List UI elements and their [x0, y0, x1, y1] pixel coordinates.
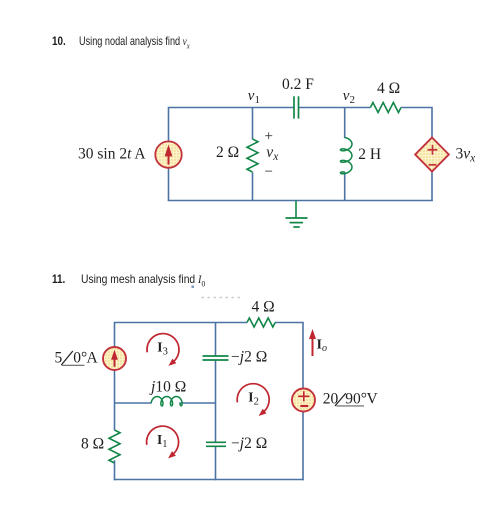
- svg-text:I2: I2: [248, 389, 259, 407]
- resistor 8 ohm: [109, 430, 120, 463]
- wire right below voltage source: [302, 411, 304, 480]
- mesh arrow I3: [147, 334, 179, 366]
- mesh arrow I1: [147, 426, 179, 458]
- svg-text:Io: Io: [317, 338, 327, 355]
- wire bottom rail: [168, 200, 433, 202]
- blue dot artifact: [192, 286, 195, 289]
- wire middle vertical below bottom cap: [215, 446, 217, 480]
- wire below 2 ohm resistor: [252, 172, 254, 201]
- svg-text:8 Ω: 8 Ω: [81, 436, 104, 453]
- svg-text:I3: I3: [157, 339, 168, 357]
- resistor 2 ohm: [247, 139, 258, 172]
- svg-text:v1: v1: [248, 88, 260, 106]
- wire middle rail right of inductor: [179, 402, 215, 404]
- label 20 angle 90 V: [323, 391, 379, 408]
- mesh arrow I2: [237, 384, 269, 416]
- capacitor -j2 ohm (top): [203, 356, 229, 360]
- wire top rail middle segment: [298, 107, 370, 109]
- capacitor -j2 ohm (bottom): [206, 442, 226, 446]
- wire left below source: [168, 167, 170, 201]
- wire left below current source: [114, 370, 116, 431]
- current source 30 sin 2t A: [155, 141, 181, 167]
- wire top right corner: [275, 323, 303, 389]
- dependent source 3vx (diamond): [415, 138, 449, 172]
- wire middle vertical above top cap: [215, 323, 217, 357]
- wire middle vertical between caps: [215, 360, 217, 442]
- wire node v1 vertical: [252, 108, 254, 140]
- resistor 4 ohm (circuit 10): [370, 103, 401, 113]
- svg-text:90°V: 90°V: [345, 391, 378, 408]
- wire top rail right segment: [401, 108, 432, 138]
- svg-text:4 Ω: 4 Ω: [252, 298, 275, 315]
- svg-text:I1: I1: [157, 432, 168, 450]
- wire node v2 vertical: [344, 108, 346, 139]
- resistor 4 ohm (circuit 11): [247, 318, 275, 327]
- current source 5/0 A: [103, 347, 126, 370]
- svg-text:−j2 Ω: −j2 Ω: [231, 435, 267, 452]
- inductor 2 H: [340, 138, 352, 174]
- label 5 angle 0 A: [55, 350, 99, 367]
- voltage source 20/90 V: [292, 389, 315, 412]
- wire left below 8 ohm: [114, 460, 116, 480]
- svg-text:2 H: 2 H: [358, 146, 381, 163]
- svg-text:+: +: [265, 129, 273, 145]
- svg-text:0°A: 0°A: [73, 350, 98, 367]
- svg-text:−: −: [265, 164, 273, 180]
- wire bottom rail (circuit 11): [114, 479, 304, 481]
- wire middle rail left of inductor: [115, 402, 152, 404]
- dotted artifact line: [202, 297, 244, 299]
- wire below 2H inductor: [344, 172, 346, 201]
- svg-text:30 sin 2t A: 30 sin 2t A: [78, 145, 146, 162]
- wire top rail (circuit 11): [115, 323, 248, 348]
- heading problem 11: [52, 272, 68, 286]
- capacitor 0.2 F: [294, 96, 299, 118]
- inductor j10 ohm: [151, 397, 182, 406]
- svg-text:j10 Ω: j10 Ω: [149, 379, 186, 396]
- heading problem 10: [52, 34, 68, 48]
- svg-text:3vx: 3vx: [456, 146, 477, 165]
- wire right below diamond: [431, 171, 433, 201]
- svg-text:−j2 Ω: −j2 Ω: [231, 349, 267, 366]
- wire top rail left segment: [169, 108, 295, 143]
- svg-text:vx: vx: [266, 144, 279, 163]
- svg-text:2 Ω: 2 Ω: [216, 144, 239, 161]
- svg-text:4 Ω: 4 Ω: [377, 80, 400, 97]
- svg-text:0.2 F: 0.2 F: [282, 76, 314, 93]
- arrow Io: [309, 329, 316, 356]
- ground: [286, 201, 308, 228]
- label + vx - annotation: [265, 129, 280, 181]
- svg-text:v2: v2: [343, 88, 355, 106]
